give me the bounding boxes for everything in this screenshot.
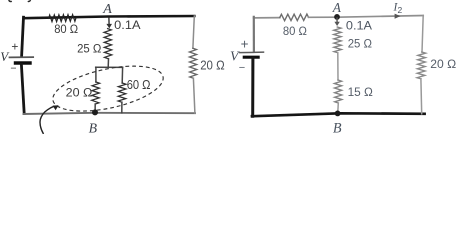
wire: left circuit left vertical below battery <box>21 65 24 114</box>
battery V2 bottom plate <box>244 56 258 59</box>
svg-text:A: A <box>102 2 112 17</box>
svg-text:0.1A: 0.1A <box>346 18 373 32</box>
svg-text:80 Ω: 80 Ω <box>283 24 307 38</box>
svg-text:80 Ω: 80 Ω <box>54 22 78 36</box>
svg-text:B: B <box>89 120 98 134</box>
node B dot (right circuit) <box>335 111 341 117</box>
node A dot (right circuit) <box>334 14 340 20</box>
node B dot (left circuit) <box>92 109 98 115</box>
wire: right circuit right vertical upper lead <box>422 16 423 53</box>
wire: stub 25ohm to parallel bar <box>107 59 109 67</box>
svg-text:20 Ω: 20 Ω <box>430 57 456 71</box>
svg-text:60 Ω: 60 Ω <box>127 77 151 92</box>
wire: left circuit right branch lower lead <box>193 78 195 113</box>
wire: left circuit right branch upper lead <box>193 16 194 48</box>
svg-text:15 Ω: 15 Ω <box>348 85 373 99</box>
pointer arrow head <box>53 105 59 110</box>
pointer arrow to ellipse: curve <box>40 106 54 134</box>
resistor 15ohm (right circuit) <box>334 80 342 103</box>
wire: left circuit top wire <box>24 16 195 18</box>
wire: right circuit right vertical lower lead <box>420 79 423 114</box>
wire: middle branch below 15ohm <box>337 103 340 114</box>
wire: 60ohm bottom lead <box>121 102 123 112</box>
resistor 60ohm <box>118 83 126 102</box>
svg-text:+: + <box>11 39 18 53</box>
svg-text:A: A <box>332 0 342 15</box>
svg-text:20 Ω: 20 Ω <box>66 86 93 100</box>
resistor 25ohm (right circuit) <box>334 27 342 53</box>
resistor 80ohm (right circuit) <box>280 14 309 21</box>
wire: middle branch between 25 and 15 <box>337 53 339 80</box>
resistor 25ohm (left circuit) <box>104 29 112 59</box>
svg-text:−: − <box>239 62 245 74</box>
current arrow 0.1A (left) head <box>106 24 112 29</box>
wire: left circuit left vertical above battery <box>22 17 24 56</box>
resistor 80ohm zigzag overlaid on top wire <box>49 15 76 22</box>
battery V2 top plate <box>240 51 264 53</box>
cropped text remnant top-left <box>9 0 12 2</box>
svg-text:0.1A: 0.1A <box>114 18 141 32</box>
wire: right circuit left vertical above battery <box>253 17 255 51</box>
current arrow 0.1A (right) head <box>334 22 339 26</box>
wire: right circuit bottom wire <box>252 113 425 116</box>
wire: 60ohm branch top lead <box>121 67 123 83</box>
resistor 20ohm (right circuit) <box>417 52 426 79</box>
battery V1 top plate <box>10 56 34 58</box>
svg-text:+: + <box>241 37 249 52</box>
wire: left circuit bottom wire <box>24 113 196 114</box>
current arrow 0.1A (left) shaft <box>108 18 110 25</box>
wire: parallel combination top bar <box>96 66 123 68</box>
svg-text:25 Ω: 25 Ω <box>348 37 372 51</box>
svg-text:B: B <box>333 120 342 134</box>
wire: 20ohm parallel branch top lead <box>95 67 97 82</box>
wire: 20ohm parallel bottom lead <box>94 104 96 112</box>
svg-text:20 Ω: 20 Ω <box>200 59 225 73</box>
wire: right circuit top wire left lead <box>254 17 280 19</box>
battery V1 bottom plate <box>16 61 31 64</box>
current arrow 0.1A (right) shaft <box>336 18 338 23</box>
current I2 arrow head on top wire <box>395 14 401 19</box>
resistor R 20ohm right branch <box>189 48 196 78</box>
svg-text:V: V <box>0 49 10 64</box>
svg-text:−: − <box>10 63 16 75</box>
svg-text:25 Ω: 25 Ω <box>77 42 101 56</box>
svg-text:2: 2 <box>398 5 403 15</box>
wire: right circuit top wire right segment <box>309 16 424 18</box>
wire: right circuit left vertical below battery <box>251 59 254 116</box>
dashed ellipse around parallel resistors <box>49 58 167 120</box>
resistor 20ohm parallel <box>92 82 100 104</box>
